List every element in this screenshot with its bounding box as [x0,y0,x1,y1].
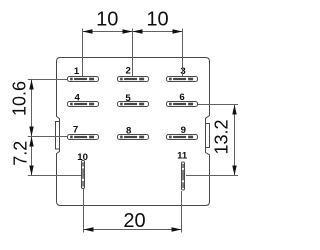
pin 5 slot [118,102,149,107]
pin 1 slot [68,77,99,82]
body outline [57,58,210,206]
svg-text:7: 7 [73,124,78,135]
left dimension extension lines [28,80,81,176]
left edge tab [56,122,60,150]
top dimension extension lines [83,29,183,77]
pin 11 slot [182,162,185,190]
svg-text:10: 10 [77,152,88,163]
svg-text:2: 2 [126,65,131,76]
svg-text:4: 4 [75,92,81,103]
svg-text:9: 9 [181,125,186,136]
right edge tab [206,124,210,148]
pin 9 slot [167,135,198,140]
svg-text:1: 1 [74,66,80,77]
pin 7 slot [68,135,99,140]
svg-text:10: 10 [146,9,168,31]
svg-text:10.6: 10.6 [10,81,30,116]
left dimension line [29,80,33,176]
pin 4 slot [68,102,99,107]
svg-text:20: 20 [123,210,145,232]
svg-text:7.2: 7.2 [11,141,31,166]
top dimension line [83,29,183,33]
svg-text:8: 8 [126,126,132,137]
svg-text:5: 5 [125,93,131,104]
pin 3 slot [167,77,198,82]
svg-text:11: 11 [177,151,188,162]
pin 2 slot [118,77,149,82]
svg-text:6: 6 [179,92,184,103]
bottom dimension line [84,227,182,231]
svg-text:10: 10 [96,9,118,31]
pin 6 slot [167,102,198,107]
pin 8 slot [118,135,149,140]
pin 10 slot [82,161,85,189]
right dimension extension lines [186,105,238,176]
right dimension line [232,105,236,176]
svg-text:13.2: 13.2 [212,119,232,154]
bottom dimension extension lines [84,189,182,233]
